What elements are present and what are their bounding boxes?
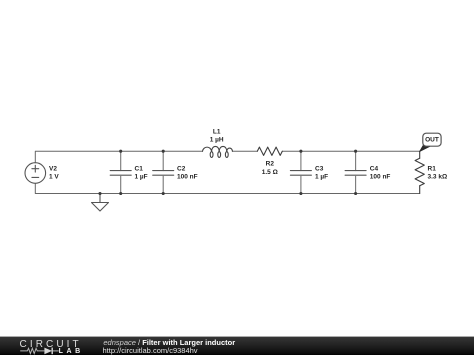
svg-text:OUT: OUT xyxy=(425,137,439,144)
svg-text:1 V: 1 V xyxy=(49,173,59,180)
resistor R2 xyxy=(257,147,282,155)
capacitor C1 xyxy=(110,151,131,193)
svg-text:3.3 kΩ: 3.3 kΩ xyxy=(428,173,448,180)
label L1 value xyxy=(210,128,224,143)
wire from R2 to OUT node xyxy=(282,150,419,152)
junction C2 bottom xyxy=(162,192,165,195)
svg-text:100 nF: 100 nF xyxy=(370,173,391,180)
footer bar top edge xyxy=(0,336,474,337)
svg-text:1 µH: 1 µH xyxy=(210,136,224,143)
svg-text:V2: V2 xyxy=(49,165,57,172)
svg-text:R2: R2 xyxy=(266,161,275,168)
voltage source V2 xyxy=(25,163,46,184)
label R2 value xyxy=(262,161,278,176)
label C3 value xyxy=(315,165,328,180)
junction C3 bottom xyxy=(299,192,302,195)
footer bar xyxy=(0,337,474,355)
node OUT flag xyxy=(420,133,441,151)
CircuitLab logo resistor-diode line xyxy=(19,345,61,355)
svg-text:R1: R1 xyxy=(428,165,437,172)
svg-text:1 µF: 1 µF xyxy=(135,173,148,180)
label V2 value xyxy=(49,165,59,180)
capacitor C2 xyxy=(153,151,174,193)
label C2 value xyxy=(177,165,198,180)
label R1 value xyxy=(428,165,448,180)
svg-text:1.5 Ω: 1.5 Ω xyxy=(262,169,278,176)
junction C4 bottom xyxy=(354,192,357,195)
svg-text:L1: L1 xyxy=(213,128,221,135)
svg-text:C4: C4 xyxy=(370,165,379,172)
label C4 value xyxy=(370,165,391,180)
svg-text:100 nF: 100 nF xyxy=(177,173,198,180)
attribution url text xyxy=(103,347,198,355)
svg-text:C3: C3 xyxy=(315,165,324,172)
junction C3 top xyxy=(299,150,302,153)
junction C1 top xyxy=(119,150,122,153)
svg-text:C1: C1 xyxy=(135,165,144,172)
svg-text:1 µF: 1 µF xyxy=(315,173,328,180)
svg-text:C2: C2 xyxy=(177,165,186,172)
junction C2 top xyxy=(162,150,165,153)
wire bottom rail xyxy=(35,183,419,193)
junction C1 bottom xyxy=(119,192,122,195)
wire between L1 and R2 xyxy=(232,150,257,152)
attribution title text xyxy=(103,339,235,347)
CircuitLab logo wordmark CIRCUIT xyxy=(20,340,82,350)
capacitor C4 xyxy=(345,151,366,193)
label C1 value xyxy=(135,165,148,180)
ground xyxy=(92,194,109,212)
capacitor C3 xyxy=(290,151,311,193)
resistor R1 xyxy=(415,151,424,193)
wire top rail from V2 to L1 xyxy=(35,151,202,163)
inductor L1 xyxy=(203,146,233,157)
junction ground tap xyxy=(98,192,101,195)
junction C4 top xyxy=(354,150,357,153)
